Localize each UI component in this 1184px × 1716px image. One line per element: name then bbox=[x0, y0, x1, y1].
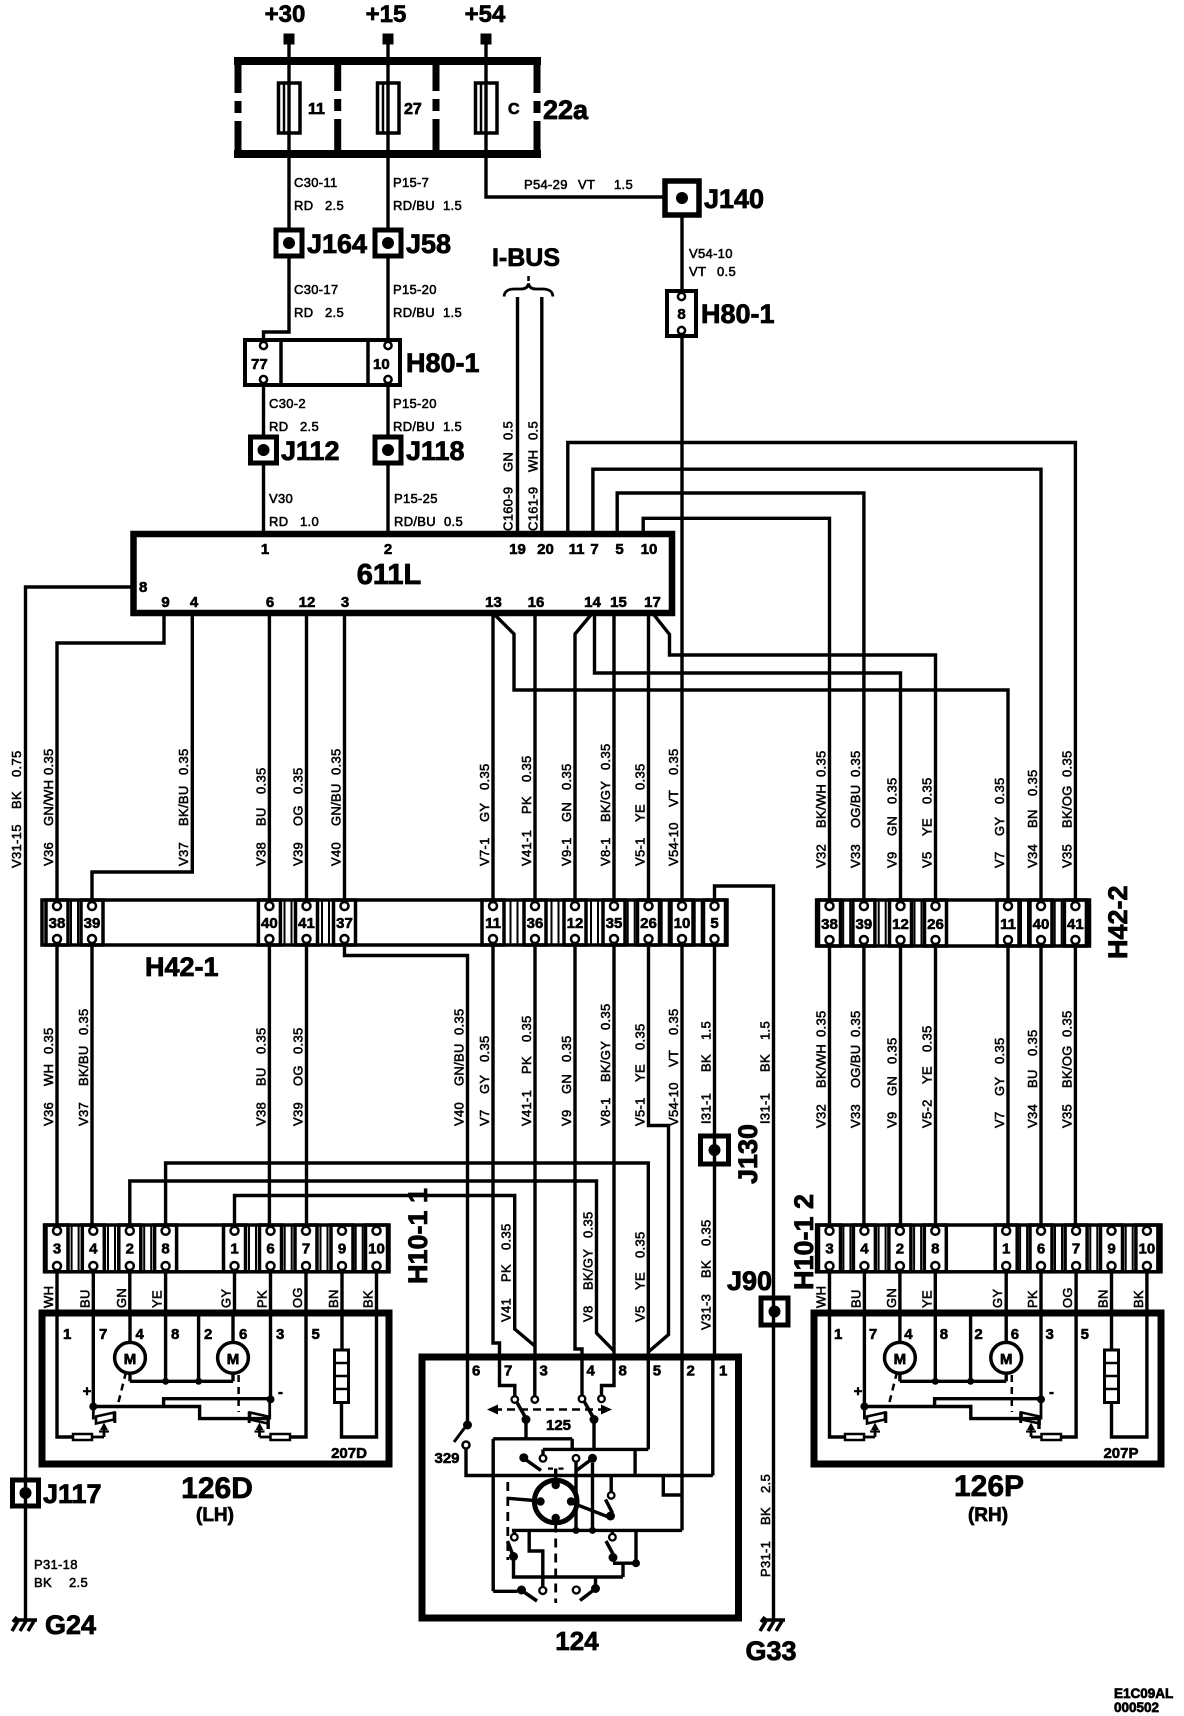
svg-text:0.35: 0.35 bbox=[598, 1003, 613, 1030]
126D pin7 wire to + node bbox=[83, 1313, 98, 1411]
label V5 YE 0.35 above H42-2 pin26 bbox=[920, 777, 935, 868]
svg-text:9: 9 bbox=[1107, 1241, 1115, 1258]
svg-text:10: 10 bbox=[368, 1241, 385, 1258]
motor M1 (126D vertical) bbox=[115, 1313, 146, 1381]
svg-text:GN/BU: GN/BU bbox=[452, 1043, 467, 1086]
svg-text:3: 3 bbox=[825, 1241, 833, 1258]
switch 329 (mirror select) bbox=[434, 1357, 712, 1476]
H42-2 cell 38 bbox=[819, 900, 841, 946]
svg-text:0.35: 0.35 bbox=[291, 1027, 306, 1054]
svg-text:7: 7 bbox=[99, 1326, 107, 1343]
svg-text:1.5: 1.5 bbox=[443, 305, 462, 320]
svg-text:6: 6 bbox=[1037, 1241, 1045, 1258]
connector J118 bbox=[375, 436, 465, 466]
124 commutator contacts right bbox=[606, 1476, 641, 1578]
H10-1.1 cell 6 bbox=[260, 1225, 282, 1272]
H10-1.2 cell 6 bbox=[1030, 1225, 1052, 1272]
svg-text:12: 12 bbox=[567, 915, 584, 932]
wire 611L pin7 to H42-2 pin40 bbox=[593, 469, 1041, 900]
svg-text:BK/WH: BK/WH bbox=[814, 784, 829, 828]
svg-text:10: 10 bbox=[373, 356, 390, 373]
H42-2 cell 40 bbox=[1030, 900, 1052, 946]
svg-text:V36: V36 bbox=[41, 1102, 56, 1126]
wire H10-1.1 pin1 GY to 126D pin6 bbox=[219, 1272, 235, 1313]
svg-text:125: 125 bbox=[546, 1417, 571, 1434]
svg-text:GY: GY bbox=[477, 803, 492, 822]
svg-text:GN: GN bbox=[885, 1076, 900, 1096]
door mirror unit 126P (RH) bbox=[814, 1313, 1161, 1526]
switch B (pins 4-8, up/down) bbox=[579, 1357, 614, 1449]
wire H42-1 pin10 to 124 pin2, label V54-10 VT 0.35 bbox=[666, 945, 682, 1357]
svg-text:H80-1: H80-1 bbox=[406, 348, 480, 378]
svg-text:V40: V40 bbox=[329, 842, 344, 866]
svg-text:-: - bbox=[278, 1384, 283, 1401]
svg-text:0.35: 0.35 bbox=[633, 763, 648, 790]
H42-1 cell 38 bbox=[46, 900, 68, 945]
svg-text:77: 77 bbox=[251, 356, 268, 373]
svg-text:BU: BU bbox=[848, 1289, 863, 1308]
svg-text:VT: VT bbox=[666, 790, 681, 807]
H42-1 cell 10 bbox=[671, 900, 693, 945]
svg-text:GY: GY bbox=[477, 1075, 492, 1094]
svg-text:0.5: 0.5 bbox=[501, 421, 516, 440]
svg-text:BK/BU: BK/BU bbox=[176, 785, 191, 826]
svg-text:17: 17 bbox=[644, 594, 661, 611]
wire H42-2 pin40 to H10-1.2 pin6, label V34 BU 0.35 bbox=[1025, 946, 1041, 1225]
svg-text:1: 1 bbox=[261, 541, 269, 558]
wire H42-1 pin5 top to J90 to G33, label I31-1 BK 1.5 / P31-1 BK 2.5 bbox=[715, 886, 774, 1620]
svg-text:611L: 611L bbox=[357, 559, 422, 591]
H42-1 cell 39 bbox=[81, 900, 103, 945]
svg-text:329: 329 bbox=[434, 1450, 459, 1467]
svg-text:V54-10: V54-10 bbox=[666, 1082, 681, 1126]
svg-text:26: 26 bbox=[640, 915, 657, 932]
svg-text:0.35: 0.35 bbox=[253, 1027, 268, 1054]
svg-text:C30-11: C30-11 bbox=[294, 175, 337, 190]
svg-text:I31-1: I31-1 bbox=[699, 1093, 714, 1124]
126D feedback rails bbox=[93, 1399, 270, 1429]
svg-text:V9: V9 bbox=[885, 851, 900, 868]
H42-1 cell 37 bbox=[334, 900, 356, 945]
wire +54 to fusebox bbox=[484, 45, 487, 58]
svg-text:36: 36 bbox=[527, 915, 544, 932]
svg-text:0.35: 0.35 bbox=[477, 1035, 492, 1062]
svg-text:P31-1: P31-1 bbox=[758, 1541, 773, 1577]
H42-1 cell 11 bbox=[482, 900, 504, 945]
wire H42-1 pin5 to J130 to 124 pin1, label I31-1 BK 1.5 bbox=[699, 945, 715, 1357]
svg-text:M: M bbox=[227, 1351, 240, 1368]
svg-text:V9: V9 bbox=[885, 1111, 900, 1128]
svg-text:7: 7 bbox=[302, 1241, 310, 1258]
svg-text:V41-1: V41-1 bbox=[519, 1090, 534, 1126]
svg-text:GN/WH: GN/WH bbox=[41, 780, 56, 826]
svg-text:BK/OG: BK/OG bbox=[1059, 1045, 1074, 1088]
resistor pack 207D bbox=[335, 1313, 377, 1437]
svg-text:126D: 126D bbox=[181, 1472, 253, 1505]
svg-text:4: 4 bbox=[587, 1363, 596, 1380]
svg-text:0.5: 0.5 bbox=[717, 264, 736, 279]
svg-text:14: 14 bbox=[584, 594, 601, 611]
svg-text:0.35: 0.35 bbox=[559, 1035, 574, 1062]
H10-1.1 cell 1 bbox=[224, 1225, 246, 1272]
svg-text:37: 37 bbox=[336, 915, 353, 932]
wire H42-2 pin26 to H10-1.2 pin8, label V5-2 YE 0.35 bbox=[920, 946, 936, 1225]
wire H42-1 pin36 to 124 pin3, label V41-1 PK 0.35 bbox=[519, 945, 535, 1357]
svg-text:I-BUS: I-BUS bbox=[492, 244, 560, 272]
svg-text:GY: GY bbox=[992, 817, 1007, 836]
wire J164 to H80-1 pin77, label C30-17 RD 2.5 bbox=[264, 256, 344, 340]
svg-text:1.5: 1.5 bbox=[699, 1021, 714, 1040]
svg-text:0.35: 0.35 bbox=[1059, 750, 1074, 777]
svg-text:11: 11 bbox=[485, 915, 501, 932]
svg-text:126P: 126P bbox=[954, 1470, 1024, 1503]
svg-text:9: 9 bbox=[338, 1241, 346, 1258]
svg-text:WH: WH bbox=[814, 1286, 829, 1308]
svg-text:20: 20 bbox=[537, 541, 554, 558]
svg-text:M: M bbox=[1000, 1351, 1013, 1368]
wire H10-1.2 pin3 WH to 126P pin1 bbox=[814, 1272, 830, 1313]
svg-text:0.35: 0.35 bbox=[519, 1015, 534, 1042]
svg-text:H80-1: H80-1 bbox=[701, 299, 775, 329]
svg-text:V32: V32 bbox=[814, 1104, 829, 1128]
H42-1 cell 35 bbox=[603, 900, 625, 945]
svg-text:8: 8 bbox=[677, 306, 685, 323]
wire H42-1 pin26 to 124 pin5, label V5-1 YE 0.35 bbox=[633, 945, 669, 1352]
svg-text:V7: V7 bbox=[992, 851, 1007, 868]
svg-text:C161-9: C161-9 bbox=[526, 487, 541, 531]
svg-text:GN: GN bbox=[885, 816, 900, 836]
svg-text:YE: YE bbox=[633, 1064, 648, 1082]
svg-text:V9-1: V9-1 bbox=[559, 837, 574, 866]
svg-text:V5: V5 bbox=[920, 851, 935, 868]
wire 611L pin3 to H42-1 pin37, label V40 GN/BU 0.35 bbox=[329, 613, 345, 900]
svg-text:BK: BK bbox=[758, 1507, 773, 1525]
connector H80-1 pin 8 bbox=[667, 291, 775, 336]
svg-text:124: 124 bbox=[555, 1626, 599, 1656]
126D pin3 wire to - node bbox=[267, 1313, 284, 1403]
svg-text:11: 11 bbox=[308, 101, 325, 118]
124 commutator contacts bottom bbox=[493, 1577, 600, 1601]
H10-1.1 cell 2 bbox=[119, 1225, 141, 1272]
svg-text:PK: PK bbox=[1025, 1290, 1040, 1308]
H42-1 cell 5 bbox=[704, 900, 726, 945]
svg-text:41: 41 bbox=[298, 915, 315, 932]
svg-text:V31-3: V31-3 bbox=[699, 1294, 714, 1330]
svg-text:1.5: 1.5 bbox=[758, 1021, 773, 1040]
svg-text:0.35: 0.35 bbox=[1025, 1029, 1040, 1056]
svg-text:8: 8 bbox=[940, 1326, 948, 1343]
wire I-BUS C161-9 WH 0.5 to 611L pin20 bbox=[526, 297, 542, 534]
svg-text:3: 3 bbox=[540, 1363, 548, 1380]
svg-text:1.5: 1.5 bbox=[614, 177, 633, 192]
svg-text:GN: GN bbox=[114, 1288, 129, 1308]
H42-1 cell 26 bbox=[638, 900, 660, 945]
svg-text:4: 4 bbox=[89, 1241, 98, 1258]
wire 611L pin5 to H42-2 pin39 bbox=[617, 493, 864, 900]
H42-1 cell 12 bbox=[564, 900, 586, 945]
wire H42-2 pin41 to H10-1.2 pin7, label V35 BK/OG 0.35 bbox=[1059, 946, 1075, 1225]
svg-text:0.35: 0.35 bbox=[41, 748, 56, 775]
wire 611L pin6 to H42-1 pin40, label V38 BU 0.35 bbox=[253, 613, 269, 900]
svg-text:BK/GY: BK/GY bbox=[598, 1041, 613, 1082]
svg-text:0.35: 0.35 bbox=[848, 1010, 863, 1037]
H42-2 cell 12 bbox=[890, 900, 912, 946]
svg-text:2.5: 2.5 bbox=[69, 1575, 88, 1590]
svg-text:35: 35 bbox=[606, 915, 623, 932]
svg-text:2: 2 bbox=[687, 1363, 695, 1380]
124 internal rails bbox=[493, 1357, 648, 1591]
fuse C bbox=[476, 57, 521, 158]
wire H42-2 pin11 to H10-1.2 pin1, label V7 GY 0.35 bbox=[992, 946, 1008, 1225]
svg-text:0.35: 0.35 bbox=[848, 750, 863, 777]
svg-text:0.35: 0.35 bbox=[920, 777, 935, 804]
mirror adjustment switch unit 124 bbox=[422, 1357, 739, 1656]
svg-text:M: M bbox=[894, 1351, 907, 1368]
svg-text:P15-20: P15-20 bbox=[393, 396, 437, 411]
H42-1 cell 36 bbox=[524, 900, 546, 945]
svg-text:V36: V36 bbox=[41, 842, 56, 866]
svg-text:27: 27 bbox=[404, 101, 422, 118]
switch A (pins 7-3, left/right) bbox=[500, 1357, 539, 1439]
svg-text:40: 40 bbox=[261, 915, 278, 932]
svg-text:V34: V34 bbox=[1025, 1104, 1040, 1128]
svg-text:V40: V40 bbox=[452, 1102, 467, 1126]
svg-text:GN: GN bbox=[559, 1074, 574, 1094]
svg-text:2.5: 2.5 bbox=[758, 1474, 773, 1493]
svg-text:7: 7 bbox=[590, 541, 598, 558]
svg-text:41: 41 bbox=[1067, 916, 1084, 933]
svg-text:10: 10 bbox=[641, 541, 658, 558]
126P pin2 stub bbox=[969, 1316, 972, 1381]
svg-text:WH: WH bbox=[41, 1064, 56, 1086]
H42-2 cell 39 bbox=[853, 900, 875, 946]
svg-text:C30-2: C30-2 bbox=[269, 396, 306, 411]
H10-1.2 cell 1 bbox=[995, 1225, 1017, 1272]
svg-text:10: 10 bbox=[674, 915, 691, 932]
H42-1 cell 41 bbox=[296, 900, 318, 945]
svg-text:RD: RD bbox=[269, 419, 288, 434]
connector J90 bbox=[727, 1266, 788, 1325]
resistor pack 207P bbox=[1105, 1313, 1147, 1437]
svg-text:BN: BN bbox=[1025, 809, 1040, 828]
wire J140 to H80-1 pin8, label V54-10 VT 0.5 bbox=[682, 215, 736, 291]
svg-text:V54-10: V54-10 bbox=[689, 246, 733, 261]
svg-text:0.35: 0.35 bbox=[992, 1037, 1007, 1064]
svg-text:BK: BK bbox=[34, 1575, 52, 1590]
wire H10-1.1 pin4 BU to 126D pin7 bbox=[77, 1272, 93, 1313]
H10-1.2 cell 2 bbox=[889, 1225, 911, 1272]
svg-text:VT: VT bbox=[666, 1050, 681, 1067]
label V33 OG/BU 0.35 above H42-2 pin39 bbox=[848, 750, 863, 868]
wire 611L pin14 branch to H42-2 pin12 bbox=[595, 613, 901, 900]
wire 611L pin16 to H42-1 pin36, label V41-1 PK 0.35 bbox=[519, 613, 535, 900]
svg-text:H10-1 2: H10-1 2 bbox=[789, 1194, 819, 1290]
wire 611L pin13 branch to H42-2 pin11 bbox=[493, 613, 1008, 900]
126D position sensor LH horizontal bbox=[239, 1375, 271, 1437]
connector H42-2 bbox=[817, 885, 1133, 959]
control module 611L bbox=[134, 534, 673, 613]
wire fuse C to J140, label P54-29 VT 1.5 bbox=[486, 158, 665, 197]
connector H42-1 bbox=[42, 900, 727, 982]
124 commutator contacts upper bbox=[519, 1449, 597, 1534]
svg-text:7: 7 bbox=[504, 1363, 512, 1380]
wire J112 to 611L pin1, label V30 RD 1.0 bbox=[264, 463, 319, 534]
svg-text:6: 6 bbox=[1011, 1326, 1019, 1343]
svg-text:V5-1: V5-1 bbox=[633, 1097, 648, 1126]
svg-text:V5-1: V5-1 bbox=[633, 837, 648, 866]
label V34 BN 0.35 above H42-2 pin40 bbox=[1025, 769, 1040, 868]
H10-1.1 cell 4 bbox=[82, 1225, 104, 1272]
svg-text:11: 11 bbox=[1000, 916, 1016, 933]
svg-text:V30: V30 bbox=[269, 491, 293, 506]
svg-text:8: 8 bbox=[619, 1363, 627, 1380]
wire H42-2 pin12 to H10-1.2 pin2, label V9 GN 0.35 bbox=[885, 946, 901, 1225]
svg-text:BK: BK bbox=[9, 791, 24, 809]
svg-text:V8-1: V8-1 bbox=[598, 837, 613, 866]
svg-text:GY: GY bbox=[219, 1289, 234, 1308]
svg-text:1.5: 1.5 bbox=[443, 419, 462, 434]
svg-text:VT: VT bbox=[689, 264, 706, 279]
svg-text:+15: +15 bbox=[366, 1, 407, 28]
svg-text:7: 7 bbox=[869, 1326, 877, 1343]
svg-text:2: 2 bbox=[204, 1326, 212, 1343]
svg-text:0.35: 0.35 bbox=[41, 1027, 56, 1054]
svg-text:000502: 000502 bbox=[1114, 1700, 1159, 1715]
svg-text:0.5: 0.5 bbox=[444, 514, 463, 529]
126P pin7 wire to + node bbox=[854, 1313, 869, 1411]
wire H42-1 pin35 to 124 pin8, label V8-1 BK/GY 0.35 bbox=[598, 945, 614, 1357]
wire H42-1 pin12 to 124 pin4, label V9 GN 0.35 bbox=[559, 945, 582, 1357]
svg-text:GN/BU: GN/BU bbox=[329, 783, 344, 826]
svg-text:RD: RD bbox=[294, 305, 313, 320]
connector J112 bbox=[251, 436, 340, 466]
wire H80-1 pin77 to J112, label C30-2 RD 2.5 bbox=[264, 385, 319, 437]
H10-1.2 cell 4 bbox=[853, 1225, 875, 1272]
wire H10-1.1 pin7 OG to 126D pin5 bbox=[290, 1272, 306, 1313]
node +15 supply bbox=[366, 1, 407, 45]
svg-text:0.35: 0.35 bbox=[920, 1025, 935, 1052]
svg-text:J58: J58 bbox=[406, 229, 451, 259]
wire 611L pin12 to H42-1 pin41, label V39 OG 0.35 bbox=[291, 613, 307, 900]
svg-text:0.35: 0.35 bbox=[699, 1219, 714, 1246]
svg-text:BU: BU bbox=[253, 807, 268, 826]
wire H42-1 pin37 to 124 pin6, label V40 GN/BU 0.35 bbox=[345, 945, 468, 1357]
svg-text:-: - bbox=[1049, 1384, 1054, 1401]
svg-text:V38: V38 bbox=[253, 842, 268, 866]
node +54 supply bbox=[465, 1, 506, 45]
H10-1.1 cell 7 bbox=[295, 1225, 317, 1272]
svg-text:5: 5 bbox=[312, 1326, 320, 1343]
126D pin2 stub bbox=[197, 1316, 200, 1381]
svg-text:2: 2 bbox=[126, 1241, 134, 1258]
svg-text:H10-1 1: H10-1 1 bbox=[403, 1188, 433, 1284]
svg-text:H42-1: H42-1 bbox=[145, 952, 219, 982]
wire H10-1.2 pin2 GN to 126P pin4 bbox=[884, 1272, 900, 1313]
svg-text:J164: J164 bbox=[307, 229, 367, 259]
svg-text:V5-2: V5-2 bbox=[920, 1099, 935, 1128]
svg-text:5: 5 bbox=[1081, 1326, 1089, 1343]
126P position sensor RH horizontal bbox=[1012, 1375, 1042, 1437]
124 commutator contacts left bbox=[508, 1530, 624, 1586]
svg-text:C: C bbox=[508, 101, 520, 118]
svg-text:YE: YE bbox=[632, 1272, 647, 1290]
svg-text:RD/BU: RD/BU bbox=[393, 419, 435, 434]
svg-text:RD: RD bbox=[294, 198, 313, 213]
svg-text:1: 1 bbox=[1002, 1241, 1010, 1258]
svg-text:V35: V35 bbox=[1059, 844, 1074, 868]
svg-text:1: 1 bbox=[63, 1326, 71, 1343]
124 drive motor rotor bbox=[507, 1469, 615, 1604]
svg-text:BU: BU bbox=[77, 1289, 92, 1308]
svg-text:8: 8 bbox=[171, 1326, 179, 1343]
svg-text:0.35: 0.35 bbox=[666, 748, 681, 775]
H10-1.1 cell 9 bbox=[331, 1225, 353, 1272]
svg-text:0.35: 0.35 bbox=[176, 748, 191, 775]
H10-1.2 cell 8 bbox=[924, 1225, 946, 1272]
svg-text:40: 40 bbox=[1033, 916, 1050, 933]
wire H10-1.2 pin4 BU to 126P pin7 bbox=[848, 1272, 864, 1313]
126D pin8 wire bbox=[164, 1313, 167, 1381]
svg-text:+: + bbox=[83, 1383, 92, 1400]
svg-text:+30: +30 bbox=[265, 1, 306, 28]
svg-text:(LH): (LH) bbox=[196, 1505, 234, 1526]
svg-text:P54-29: P54-29 bbox=[524, 177, 568, 192]
svg-text:WH: WH bbox=[41, 1286, 56, 1308]
svg-text:RD/BU: RD/BU bbox=[393, 198, 435, 213]
H42-2 cell 41 bbox=[1064, 900, 1086, 946]
wire 611L pin9 to H42-1 pin38, label V36 GN/WH 0.35 bbox=[41, 613, 164, 900]
connector J58 bbox=[375, 229, 451, 259]
svg-text:0.5: 0.5 bbox=[526, 421, 541, 440]
wire H42-1 pin39 to H10-1.1 pin4, label V37 BK/BU 0.35 bbox=[76, 945, 92, 1225]
126P pin1 wire to contact plate bbox=[830, 1313, 865, 1440]
svg-text:0.35: 0.35 bbox=[598, 743, 613, 770]
svg-text:OG: OG bbox=[290, 1287, 305, 1308]
H10-1.2 cell 3 bbox=[819, 1225, 841, 1272]
svg-text:BK: BK bbox=[758, 1054, 773, 1072]
svg-text:J112: J112 bbox=[281, 436, 340, 466]
label V7 GY 0.35 above H42-2 pin11 bbox=[992, 777, 1007, 868]
wire H10-1.1 pin10 BK to 126D bbox=[361, 1272, 377, 1313]
svg-text:3: 3 bbox=[53, 1241, 61, 1258]
svg-text:8: 8 bbox=[139, 579, 147, 596]
svg-text:OG: OG bbox=[1060, 1287, 1075, 1308]
svg-text:RD: RD bbox=[269, 514, 288, 529]
svg-text:J140: J140 bbox=[704, 184, 764, 214]
wire H42-1 pin41 to H10-1.1 pin7, label V39 OG 0.35 bbox=[291, 945, 307, 1225]
svg-text:J130: J130 bbox=[733, 1124, 763, 1184]
node +30 supply bbox=[265, 1, 306, 45]
svg-text:0.35: 0.35 bbox=[253, 767, 268, 794]
svg-text:1.0: 1.0 bbox=[300, 514, 319, 529]
svg-text:YE: YE bbox=[633, 804, 648, 822]
fusebox 22a bbox=[234, 57, 589, 158]
svg-text:V37: V37 bbox=[76, 1102, 91, 1126]
wire H10-1.2 pin8 YE to 126P pin8 bbox=[919, 1272, 935, 1313]
H42-2 cell 26 bbox=[925, 900, 947, 946]
wire 611L pin17 to H42-1 pin26, label V5-1 YE 0.35 bbox=[633, 613, 649, 900]
svg-text:BK: BK bbox=[699, 1260, 714, 1278]
svg-text:6: 6 bbox=[239, 1326, 247, 1343]
svg-text:V7: V7 bbox=[992, 1111, 1007, 1128]
svg-text:12: 12 bbox=[892, 916, 909, 933]
H10-1.2 cell 10 bbox=[1136, 1225, 1158, 1272]
svg-text:0.35: 0.35 bbox=[1025, 769, 1040, 796]
svg-text:3: 3 bbox=[1046, 1326, 1054, 1343]
svg-text:0.35: 0.35 bbox=[581, 1211, 596, 1238]
wire H10-1.2 pin6 PK to 126P pin3 bbox=[1025, 1272, 1041, 1313]
svg-text:C160-9: C160-9 bbox=[501, 487, 516, 531]
